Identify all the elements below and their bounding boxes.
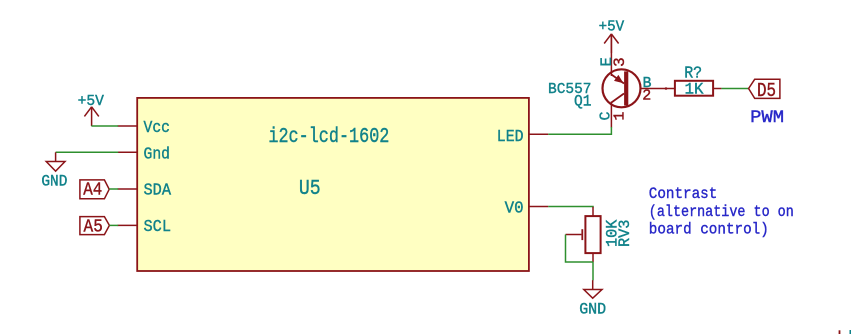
svg-text:V0: V0 [505, 199, 524, 218]
emitter diagonal with arrow [611, 75, 624, 84]
svg-text:GND: GND [41, 173, 67, 191]
base pin (pin 2) [640, 88, 675, 90]
IC U5 reference U5 [299, 177, 321, 201]
wire pot bottom to GND [592, 262, 594, 280]
svg-text:A5: A5 [84, 218, 103, 238]
svg-text:SCL: SCL [144, 218, 172, 237]
bottom pin stub [592, 253, 594, 262]
svg-text:(alternative to on: (alternative to on [649, 203, 794, 221]
collector pin (pin 1) [610, 102, 612, 128]
pin LED stub [529, 133, 548, 135]
wire V0 to potentiometer [548, 207, 593, 208]
svg-text:A4: A4 [83, 181, 102, 201]
pin SDA stub [118, 188, 138, 190]
junction dot on base pin [665, 87, 668, 90]
svg-text:U5: U5 [299, 177, 321, 201]
IC U5 value label i2c-lcd-1602 [268, 126, 389, 149]
body [585, 216, 600, 253]
ground symbol GND (bottom) [579, 280, 606, 318]
IC U5 body [137, 98, 529, 271]
power symbol +5V (left) [78, 94, 105, 126]
wire wiper to bottom [566, 235, 594, 263]
power symbol +5V (transistor emitter) [599, 20, 625, 53]
resistor R? 1K [675, 64, 722, 99]
text Contrast note [649, 185, 794, 239]
top pin stub [592, 207, 594, 216]
partial wire (bottom right edge, red) [839, 330, 841, 334]
svg-text:LED: LED [497, 128, 524, 147]
svg-text:i2c-lcd-1602: i2c-lcd-1602 [268, 126, 389, 149]
wire +5V to Vcc [91, 125, 118, 127]
svg-text:PWM: PWM [750, 108, 784, 128]
pin SCL stub [118, 224, 138, 226]
base bar [624, 71, 628, 105]
pin Gnd stub [118, 151, 138, 153]
svg-text:3: 3 [611, 57, 629, 67]
transistor Q1 BC557 [548, 34, 675, 128]
partial text (bottom right edge, teal) [849, 330, 851, 334]
svg-text:SDA: SDA [144, 182, 172, 201]
svg-text:2: 2 [642, 88, 651, 105]
svg-text:D5: D5 [757, 80, 776, 102]
svg-text:1K: 1K [685, 81, 704, 99]
pin V0 stub [529, 206, 548, 208]
wire resistor to D5 [721, 88, 748, 90]
svg-text:GND: GND [579, 300, 606, 318]
svg-text:Gnd: Gnd [144, 145, 171, 164]
wire A4 to SDA [109, 188, 118, 190]
hierarchical label A4 [80, 180, 109, 201]
svg-text:1: 1 [611, 112, 628, 121]
svg-text:board control): board control) [649, 221, 769, 239]
svg-text:RV3: RV3 [616, 220, 634, 248]
hierarchical label A5 [80, 217, 110, 238]
resistor right pin stub [713, 88, 721, 90]
potentiometer RV3 10K [566, 207, 635, 262]
body circle [603, 69, 641, 107]
wire A5 to SCL [109, 224, 118, 226]
svg-text:Vcc: Vcc [144, 119, 171, 138]
svg-text:Q1: Q1 [574, 92, 592, 110]
emitter pin (pin 3) [610, 34, 612, 76]
wire LED to collector [548, 127, 611, 134]
svg-text:Contrast: Contrast [649, 185, 718, 203]
hierarchical label D5 [749, 79, 780, 102]
ground symbol GND (left) [41, 152, 67, 190]
wiper arrow [566, 234, 582, 236]
pin Vcc stub [118, 125, 138, 127]
collector diagonal [611, 94, 624, 103]
wire Gnd to GND symbol [56, 151, 119, 153]
svg-text:+5V: +5V [599, 20, 625, 36]
